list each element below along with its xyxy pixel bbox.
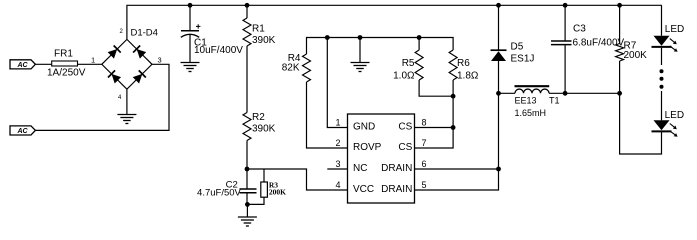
svg-text:1A/250V: 1A/250V — [47, 67, 86, 78]
svg-text:DRAIN: DRAIN — [381, 184, 412, 195]
capacitor C2 4.7uF/50V — [197, 169, 256, 204]
ground (bridge) — [117, 115, 136, 124]
svg-text:390K: 390K — [252, 35, 276, 46]
wire R2 to VCC node — [246, 141, 248, 170]
wire gnd net to pin 1 — [327, 38, 347, 128]
svg-text:390K: 390K — [252, 124, 276, 135]
wire R5 bottom to R6 bottom — [419, 80, 453, 96]
svg-text:1.65mH: 1.65mH — [515, 108, 547, 118]
capacitor C3 6.8uF/400V — [551, 5, 625, 93]
wire pin 5 to drain riser — [415, 93, 499, 190]
resistor R1 390K — [243, 5, 276, 46]
svg-text:8: 8 — [422, 117, 427, 127]
ground (IC gnd net) — [351, 63, 370, 72]
wire fuse to bridge pin 1 — [78, 63, 102, 65]
svg-text:D5: D5 — [511, 42, 524, 53]
LED (bottom) — [652, 91, 685, 137]
svg-text:1: 1 — [91, 55, 95, 64]
LED (top) — [652, 5, 685, 65]
op IC U1 (controller) — [327, 114, 414, 203]
node gnd symbol junction — [358, 35, 363, 40]
svg-text:DRAIN: DRAIN — [381, 163, 412, 174]
svg-text:R1: R1 — [252, 24, 265, 35]
connector AC (neutral input) — [10, 126, 35, 135]
wire to ground (IC) — [359, 38, 361, 63]
svg-text:ES1J: ES1J — [511, 53, 535, 64]
svg-text:CS: CS — [398, 142, 412, 153]
wire to ground (C2) — [246, 204, 248, 217]
connector AC (line input) — [10, 60, 35, 69]
inductor T1 EE13 1.65mH — [499, 86, 620, 118]
svg-text:EE13: EE13 — [515, 96, 537, 106]
svg-text:LED: LED — [665, 24, 684, 35]
svg-text:T1: T1 — [549, 96, 560, 106]
svg-text:2: 2 — [335, 138, 340, 148]
wire CS node to pins 8 and 7 — [415, 96, 454, 148]
wire IC ground net — [307, 38, 454, 55]
node R1 rail junction — [245, 3, 250, 8]
svg-text:7: 7 — [422, 138, 427, 148]
svg-text:4: 4 — [335, 180, 340, 190]
diode D5 ES1J — [491, 5, 535, 93]
svg-text:LED: LED — [665, 110, 684, 121]
svg-text:3: 3 — [335, 159, 340, 169]
svg-text:NC: NC — [353, 163, 367, 174]
svg-text:10uF/400V: 10uF/400V — [194, 45, 243, 56]
node gnd-net pin1 junction — [325, 35, 330, 40]
svg-text:1: 1 — [335, 117, 340, 127]
fuse FR1 1A/250V — [47, 49, 86, 79]
wire VCC node to pin 4 — [247, 169, 348, 190]
svg-text:6.8uF/400V: 6.8uF/400V — [573, 38, 625, 49]
svg-text:GND: GND — [353, 122, 375, 133]
svg-text:CS: CS — [398, 122, 412, 133]
svg-text:4.7uF/50V: 4.7uF/50V — [197, 187, 241, 198]
svg-text:D1-D4: D1-D4 — [131, 28, 158, 39]
node drain top junction — [496, 91, 501, 96]
wire bridge pin 4 to ground — [126, 89, 128, 114]
node C3 out junction — [563, 91, 568, 96]
svg-text:FR1: FR1 — [54, 49, 73, 60]
ground (C1) — [181, 63, 200, 72]
node drain pin6 junction — [496, 167, 501, 172]
svg-text:R2: R2 — [252, 112, 265, 123]
svg-text:200K: 200K — [269, 187, 286, 196]
resistor R2 390K — [243, 112, 276, 141]
svg-text:R5: R5 — [402, 58, 415, 69]
svg-text:C3: C3 — [573, 24, 586, 35]
bridge rectifier D1-D4 — [102, 28, 158, 89]
node CS junction — [451, 94, 456, 99]
svg-text:AC: AC — [16, 128, 28, 135]
node pin8 junction — [451, 125, 456, 130]
svg-text:ROVP: ROVP — [353, 142, 382, 153]
wire AC neutral to bridge pin 3 — [35, 64, 169, 130]
node D5 rail junction — [496, 3, 501, 8]
wire top rail (bridge + output to rail) — [127, 5, 662, 39]
node R5 junction — [417, 35, 422, 40]
svg-text:AC: AC — [16, 62, 28, 69]
svg-text:1.0Ω: 1.0Ω — [393, 71, 415, 82]
svg-text:1.8Ω: 1.8Ω — [457, 71, 479, 82]
node VCC junction — [245, 167, 250, 172]
node R7 out junction — [617, 91, 622, 96]
node series dots — [660, 69, 664, 89]
resistor R3 200K — [248, 169, 286, 204]
node C3 rail junction — [563, 3, 568, 8]
ground (C2) — [238, 217, 257, 226]
wire LED return — [620, 93, 662, 154]
node C2 ground junction — [245, 202, 250, 207]
svg-text:R6: R6 — [457, 58, 470, 69]
wire pin 6 to drain node — [415, 168, 499, 170]
svg-text:82K: 82K — [282, 63, 300, 74]
node C1 rail junction — [188, 3, 193, 8]
resistor R7 200K — [616, 5, 648, 93]
svg-text:6: 6 — [422, 159, 427, 169]
resistor R4 82K — [282, 53, 311, 82]
svg-text:5: 5 — [422, 180, 427, 190]
svg-text:3: 3 — [158, 55, 162, 64]
wire R1 to R2 — [246, 46, 248, 113]
resistor R6 1.8ohm — [449, 50, 479, 82]
svg-text:VCC: VCC — [353, 184, 374, 195]
capacitor C1 10uF/400V — [181, 5, 243, 62]
wire R4 to pin 2 — [307, 82, 348, 148]
wire AC to fuse — [35, 63, 51, 65]
node R7 rail junction — [617, 3, 622, 8]
resistor R5 1.0ohm — [393, 38, 423, 82]
svg-text:200K: 200K — [624, 50, 648, 61]
